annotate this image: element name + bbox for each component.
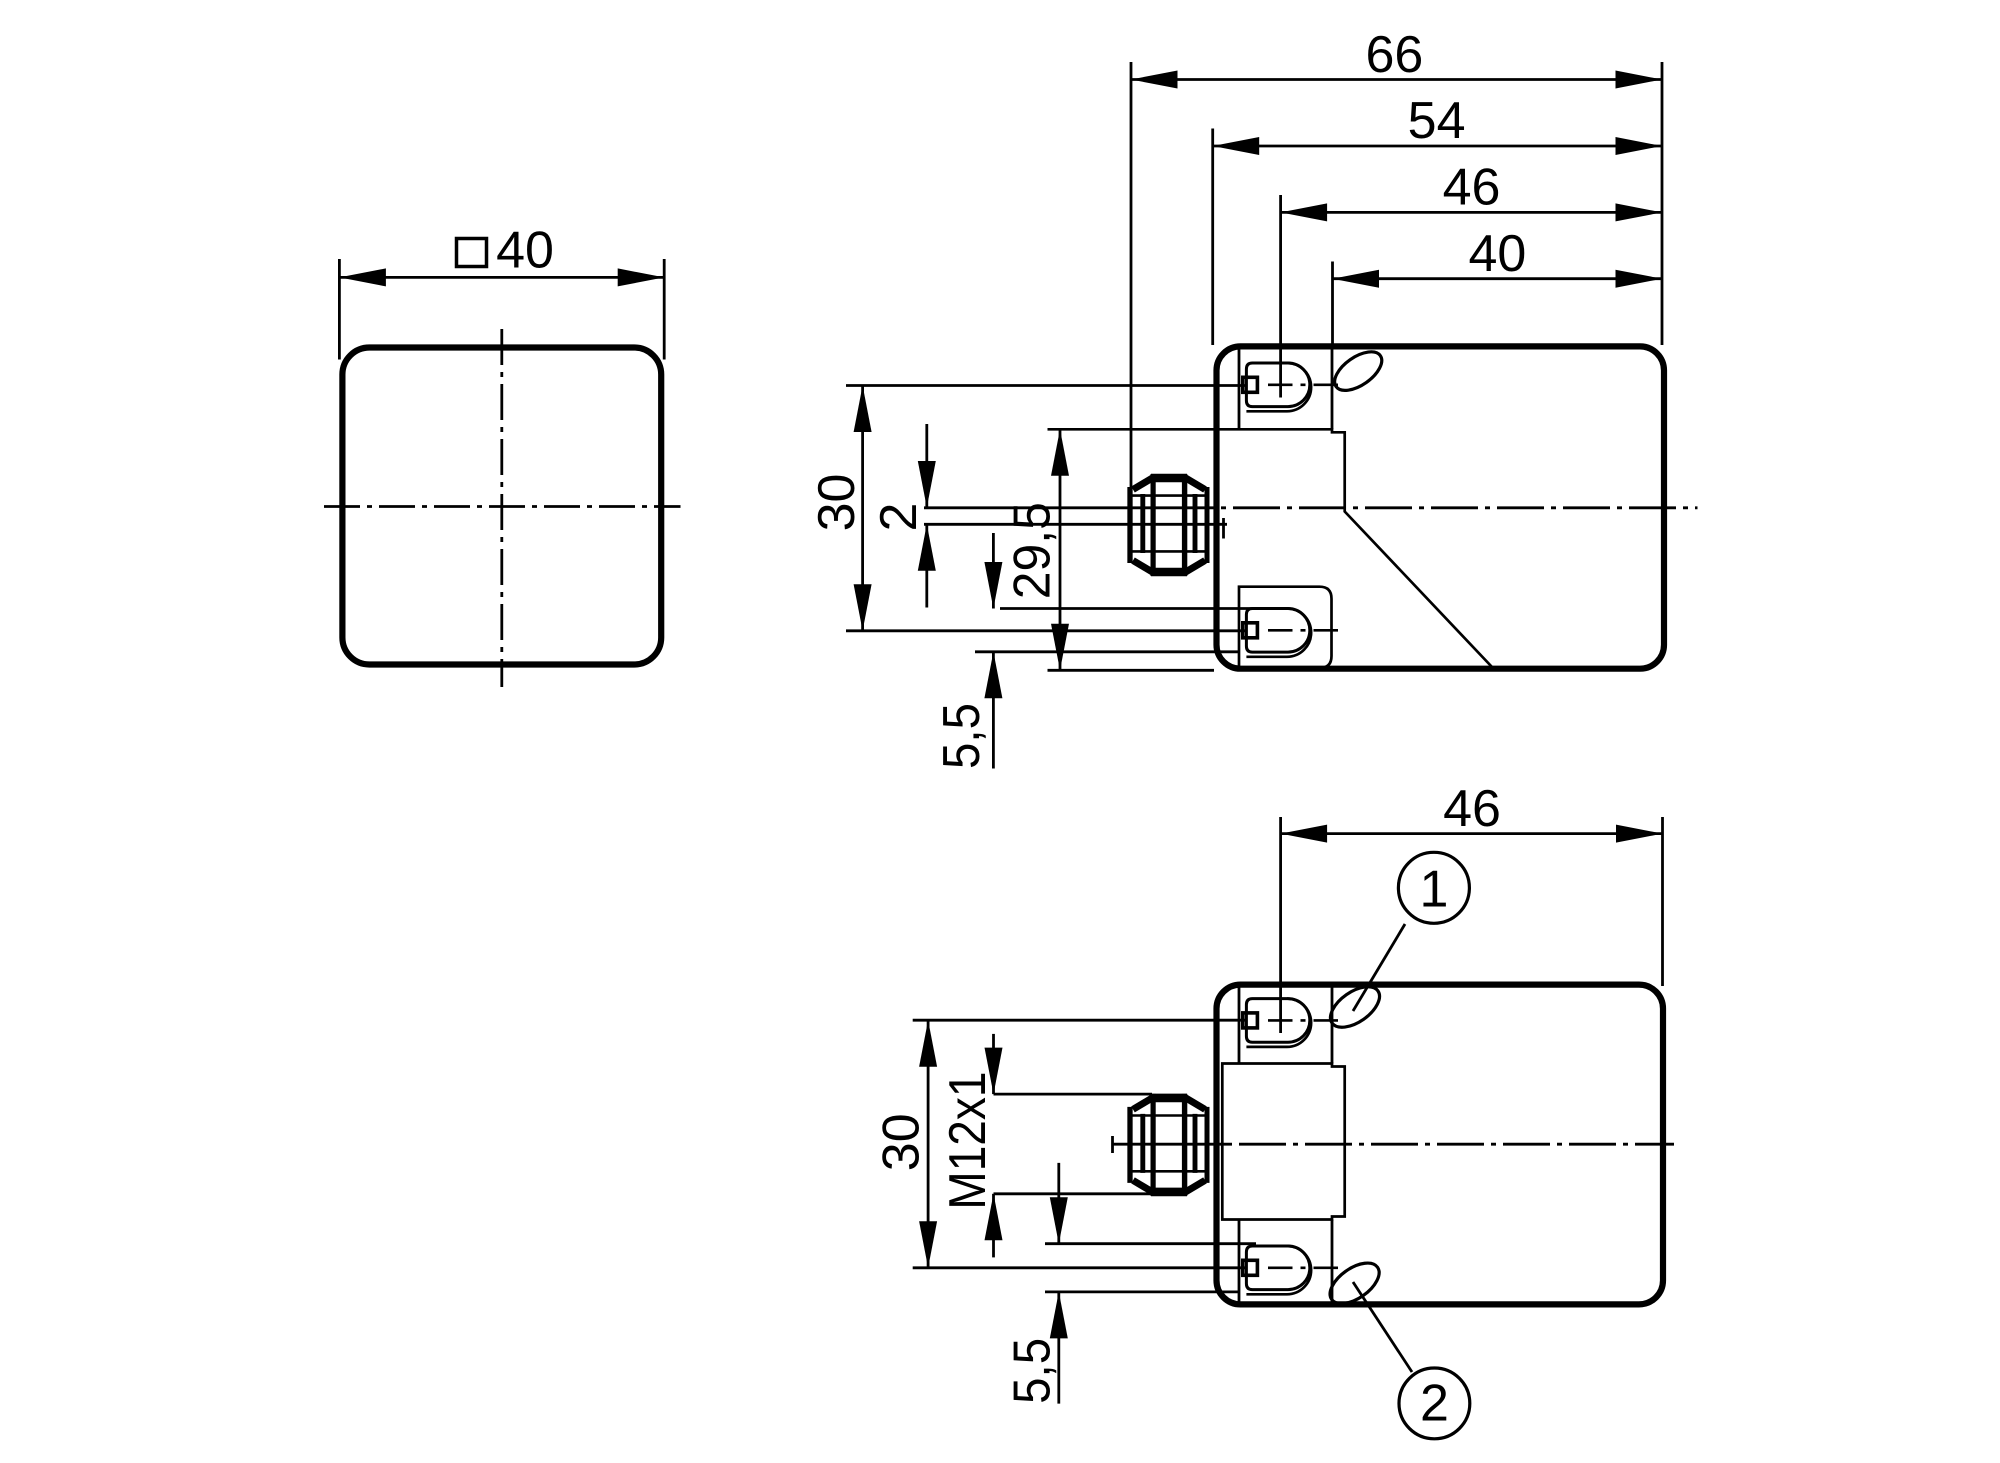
- svg-text:54: 54: [1408, 92, 1466, 150]
- svg-text:M12x1: M12x1: [939, 1072, 997, 1210]
- svg-text:29,5: 29,5: [1003, 502, 1061, 599]
- svg-text:1: 1: [1419, 860, 1448, 918]
- svg-text:5,5: 5,5: [933, 703, 991, 769]
- dimension 30 side view: [846, 384, 1246, 387]
- rear view body outline: [1217, 985, 1664, 1305]
- dimension 2 side view: [925, 424, 928, 508]
- rear view connector boss contour: [1222, 1064, 1344, 1220]
- svg-text:30: 30: [873, 1113, 931, 1171]
- dimension 5,5 side view: [992, 533, 995, 609]
- side view bottom mounting slot: [1243, 609, 1338, 657]
- side view body outline: [1217, 346, 1665, 668]
- svg-text:2: 2: [1420, 1375, 1449, 1433]
- callout circle 1: [1398, 852, 1469, 923]
- svg-text:46: 46: [1443, 780, 1501, 838]
- side view top mounting slot: [1243, 363, 1338, 411]
- svg-text:2: 2: [870, 503, 928, 532]
- svg-text:40: 40: [496, 222, 554, 280]
- dimension 46: [1279, 195, 1282, 398]
- leader line 2: [1353, 1282, 1412, 1372]
- dimension 29,5 side view: [1059, 429, 1062, 670]
- front view vertical centerline: [500, 329, 503, 687]
- screw ellipse 2: [1323, 1255, 1386, 1312]
- side view LED window: [1328, 344, 1388, 398]
- svg-text:30: 30: [808, 474, 866, 532]
- dimension 40: [1331, 262, 1334, 348]
- leader line 1: [1353, 924, 1405, 1011]
- dimension 66: [1130, 62, 1133, 490]
- connector axis tick: [1222, 518, 1225, 539]
- screw ellipse 1: [1323, 979, 1386, 1036]
- side view body centerline: [924, 506, 1216, 509]
- front view body outline: [342, 348, 661, 665]
- dimension square-40 line: [339, 276, 664, 279]
- rear view top mounting slot: [1243, 999, 1338, 1047]
- side view face step contour: [1048, 429, 1493, 667]
- rear axis tick: [1111, 1136, 1114, 1153]
- dimension 46 rear view: [1279, 817, 1282, 1033]
- svg-text:40: 40: [1468, 225, 1526, 283]
- callout circle 2: [1399, 1368, 1470, 1439]
- svg-text:66: 66: [1365, 26, 1423, 84]
- rear view axis centerline: [1112, 1143, 1227, 1146]
- dimension M12x1: [992, 1034, 995, 1094]
- front view horizontal centerline: [324, 505, 681, 508]
- side view bottom block outline: [1239, 587, 1332, 668]
- rear view slot plate edges: [1238, 988, 1241, 1064]
- side view face plate edges: [1238, 349, 1241, 429]
- dimension 5,5 rear view: [1057, 1163, 1060, 1244]
- dimension 54: [1211, 129, 1214, 346]
- svg-text:5,5: 5,5: [1003, 1338, 1061, 1404]
- M12 connector side view: [1130, 474, 1209, 576]
- dimension 30 rear view: [913, 1019, 1246, 1022]
- dimension square-40 label: [457, 239, 487, 267]
- rear view M12 connector: [1130, 1094, 1209, 1196]
- connector axis line: [924, 523, 1227, 526]
- dimension square-40 extension lines: [338, 259, 341, 360]
- rear view bottom mounting slot: [1243, 1246, 1338, 1294]
- svg-text:46: 46: [1443, 159, 1501, 217]
